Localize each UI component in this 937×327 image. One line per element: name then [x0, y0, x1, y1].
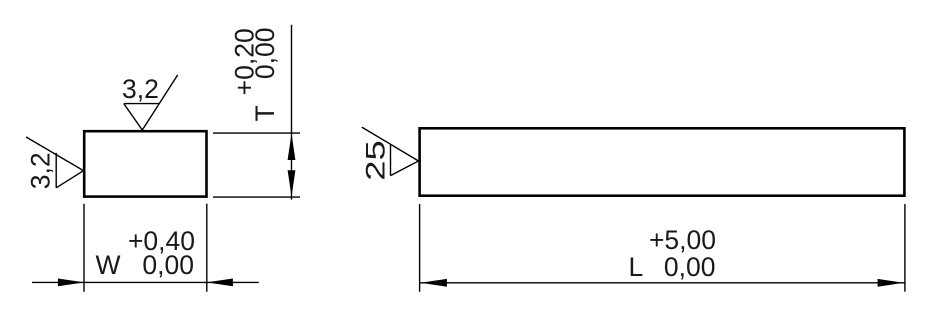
svg-text:L: L	[629, 252, 644, 282]
svg-text:W: W	[96, 250, 121, 280]
svg-text:0,00: 0,00	[664, 252, 716, 282]
svg-text:3,2: 3,2	[122, 74, 159, 104]
svg-text:T: T	[250, 105, 280, 121]
svg-text:3,2: 3,2	[26, 152, 56, 189]
svg-text:25: 25	[360, 140, 390, 181]
svg-text:0,00: 0,00	[142, 250, 194, 280]
svg-text:+5,00: +5,00	[649, 225, 716, 255]
svg-text:0,00: 0,00	[250, 28, 280, 80]
